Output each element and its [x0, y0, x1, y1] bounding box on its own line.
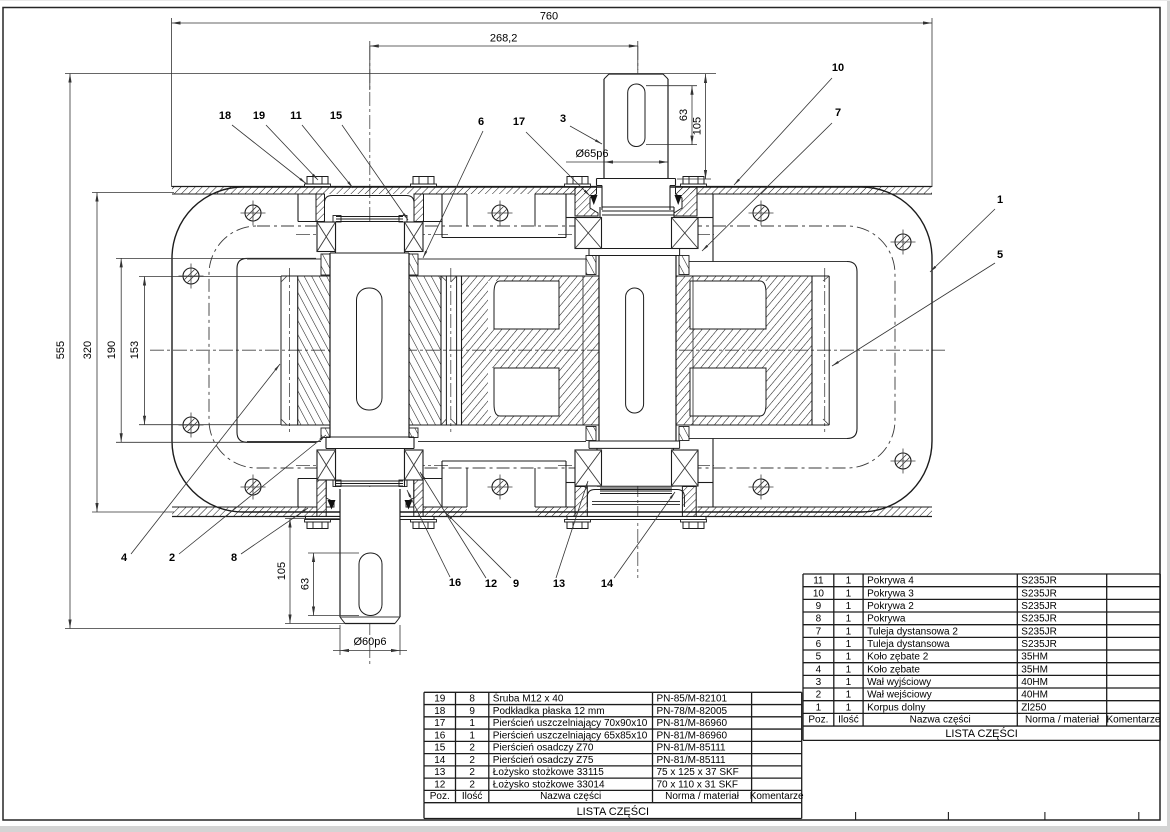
gear wheel (kolo zebate, part 4) hatched section: [462, 276, 813, 425]
pinion tip lines: [280, 276, 282, 425]
cover 2 flange: [306, 517, 341, 520]
callout 17: [513, 116, 590, 196]
svg-text:13: 13: [553, 578, 565, 590]
svg-text:Ø65p6: Ø65p6: [575, 148, 608, 160]
callout 2: [169, 435, 326, 564]
centerline left shaft: [369, 46, 371, 665]
svg-text:Zl250: Zl250: [1021, 702, 1046, 713]
svg-text:11: 11: [813, 576, 824, 587]
svg-text:S235JR: S235JR: [1021, 576, 1057, 587]
svg-text:10: 10: [832, 62, 844, 74]
svg-text:19: 19: [434, 694, 446, 705]
spacer sleeve (tuleja dystansowa, part 6) on output shaft: [321, 254, 330, 275]
svg-text:13: 13: [434, 767, 446, 778]
svg-text:7: 7: [816, 626, 822, 637]
svg-text:LISTA CZĘŚCI: LISTA CZĘŚCI: [945, 727, 1018, 740]
svg-text:1: 1: [846, 626, 852, 637]
callout 3: [560, 113, 602, 144]
parts list table 1: [424, 692, 804, 819]
svg-text:4: 4: [816, 664, 822, 675]
svg-text:1: 1: [846, 639, 852, 650]
svg-text:15: 15: [330, 110, 342, 122]
svg-text:1: 1: [469, 718, 475, 729]
input shaft protruding end: [603, 79, 605, 179]
dimension 153: [144, 277, 146, 425]
svg-text:Wał wyjściowy: Wał wyjściowy: [867, 677, 931, 688]
tapered roller bearing bottom-right outer: [672, 450, 699, 486]
housing cavity left end contour: [237, 258, 316, 442]
svg-text:19: 19: [253, 110, 265, 122]
svg-text:Łożysko stożkowe 33014: Łożysko stożkowe 33014: [493, 779, 605, 790]
callout 8: [231, 508, 308, 564]
svg-text:2: 2: [469, 755, 475, 766]
dimension 105 input shaft: [677, 178, 711, 180]
svg-text:6: 6: [816, 639, 822, 650]
gear wheel tip lines: [445, 276, 447, 425]
output shaft outlines: [329, 253, 331, 437]
cover 3 (pokrywa 3, part 10) top-right through cover: [575, 187, 598, 217]
svg-text:18: 18: [434, 706, 446, 717]
input shaft end keyway: [628, 84, 645, 147]
callout 9: [446, 513, 519, 590]
svg-text:6: 6: [478, 116, 484, 128]
tapered roller bearing 33115 top-right outer: [672, 218, 699, 249]
flange bolt hole 1: [241, 201, 266, 226]
svg-text:12: 12: [434, 779, 446, 790]
svg-text:760: 760: [540, 11, 558, 23]
housing cavity ledge mid bottom: [442, 460, 566, 462]
svg-text:1: 1: [846, 652, 852, 663]
svg-text:16: 16: [434, 730, 446, 741]
svg-text:Komentarze: Komentarze: [750, 791, 804, 802]
dimension 63 output shaft: [308, 552, 359, 554]
output shaft protruding end: [339, 489, 341, 617]
svg-text:Pokrywa 2: Pokrywa 2: [867, 601, 914, 612]
svg-text:18: 18: [219, 110, 231, 122]
svg-text:4: 4: [121, 552, 128, 564]
hex bolt M12 bottom x=577.5: [565, 520, 591, 529]
tapered roller bearing 33014 top-left (part 12): [317, 222, 336, 252]
retaining ring stack bottom-left: [336, 480, 403, 482]
flange bolt hole 10: [749, 475, 774, 500]
centerline top bearings axis: [296, 234, 448, 236]
callout 7: [702, 107, 841, 251]
svg-text:Ilość: Ilość: [462, 791, 483, 802]
svg-text:11: 11: [290, 110, 302, 122]
retaining ring Z70 stack top-left (part 15): [336, 216, 403, 218]
callout 13: [553, 481, 588, 590]
hex bolt M12 bottom x=423.5: [411, 520, 437, 529]
svg-text:Wał wejściowy: Wał wejściowy: [867, 690, 932, 701]
svg-text:320: 320: [82, 341, 94, 359]
housing cavity right end contour: [713, 262, 857, 439]
dimension 190: [120, 258, 122, 442]
svg-text:555: 555: [55, 341, 67, 359]
svg-text:3: 3: [816, 677, 822, 688]
svg-text:Pierścień uszczelniający 65x85: Pierścień uszczelniający 65x85x10: [493, 730, 648, 741]
hex bolt M12 bottom x=693.5: [681, 520, 707, 529]
svg-text:LISTA CZĘŚCI: LISTA CZĘŚCI: [577, 805, 650, 818]
svg-text:S235JR: S235JR: [1021, 601, 1057, 612]
housing cavity ledge mid top: [442, 237, 566, 239]
svg-text:35HM: 35HM: [1021, 664, 1048, 675]
svg-text:S235JR: S235JR: [1021, 639, 1057, 650]
svg-text:Koło zębate 2: Koło zębate 2: [867, 652, 929, 663]
output shaft keyway slot: [357, 288, 383, 410]
seal ring 70x90x10 output side (part 16): [328, 500, 336, 510]
input shaft keyway slot: [626, 288, 644, 413]
dimension 320: [96, 193, 98, 513]
flange bolt hole 5: [179, 413, 204, 438]
dimension diameter 65p6: [566, 161, 668, 163]
svg-text:1: 1: [846, 664, 852, 675]
svg-text:63: 63: [300, 578, 312, 590]
svg-text:7: 7: [835, 107, 841, 119]
svg-text:Podkładka płaska 12 mm: Podkładka płaska 12 mm: [493, 706, 605, 717]
hex bolt M12 top x=577.5: [565, 177, 591, 187]
svg-text:S235JR: S235JR: [1021, 626, 1057, 637]
svg-text:Tuleja dystansowa 2: Tuleja dystansowa 2: [867, 626, 958, 637]
frame tick marks: [855, 812, 857, 820]
svg-text:1: 1: [846, 588, 852, 599]
flange bolt hole 6: [891, 230, 916, 255]
gear wheel pitch line right: [824, 268, 826, 432]
callout 1: [930, 194, 1003, 272]
svg-text:1: 1: [846, 690, 852, 701]
svg-text:9: 9: [816, 601, 822, 612]
callout 5: [832, 249, 1003, 366]
housing outer contour: [172, 187, 932, 512]
retaining ring stack bottom-right: [600, 487, 672, 489]
svg-text:PN-85/M-82101: PN-85/M-82101: [657, 694, 728, 705]
svg-text:40HM: 40HM: [1021, 677, 1048, 688]
cover 4 (pokrywa 4, part 11) top-left blind cover: [316, 194, 325, 222]
svg-text:63: 63: [678, 109, 690, 121]
svg-text:Pierścień osadczy Z75: Pierścień osadczy Z75: [493, 755, 594, 766]
dimension 63 input shaft: [646, 85, 697, 87]
centerline right shaft: [637, 46, 639, 578]
svg-text:14: 14: [434, 755, 446, 766]
tapered roller bearing 33014 top-left outer: [405, 222, 424, 252]
tapered roller bearing bottom-right: [575, 450, 602, 486]
svg-text:1: 1: [469, 730, 475, 741]
svg-text:14: 14: [601, 578, 614, 590]
svg-text:S235JR: S235JR: [1021, 614, 1057, 625]
hex bolt M12 bottom x=317.5: [305, 520, 331, 529]
svg-text:1: 1: [846, 601, 852, 612]
svg-text:Pierścień osadczy Z70: Pierścień osadczy Z70: [493, 743, 594, 754]
svg-text:17: 17: [434, 718, 446, 729]
svg-text:PN-81/M-85111: PN-81/M-85111: [657, 743, 727, 754]
svg-text:1: 1: [846, 702, 852, 713]
svg-text:153: 153: [129, 341, 141, 359]
callout 6: [423, 116, 484, 258]
seal ring 65x85x10 input side (part 17): [590, 195, 598, 205]
svg-text:Pokrywa 4: Pokrywa 4: [867, 576, 914, 587]
bearing boss bottom right: [565, 461, 567, 507]
svg-text:9: 9: [513, 578, 519, 590]
svg-text:Śruba M12 x 40: Śruba M12 x 40: [493, 692, 564, 705]
callout 16: [407, 490, 461, 589]
svg-text:PN-81/M-85111: PN-81/M-85111: [657, 755, 727, 766]
spacer sleeve 2 (tuleja dystansowa 2, part 7) on input shaft: [586, 256, 596, 275]
tapered roller bearing 33115 top-right (part 13): [575, 218, 602, 249]
dimension 268,2: [370, 45, 638, 47]
svg-text:105: 105: [276, 562, 288, 580]
output shaft (wal wyjsciowy, part 3) body white: [330, 253, 409, 437]
gear wheel rim root lines: [461, 276, 463, 425]
svg-text:5: 5: [997, 249, 1003, 261]
input shaft bottom journal: [596, 448, 598, 486]
centerline main horizontal axis: [150, 349, 945, 351]
svg-text:1: 1: [846, 576, 852, 587]
callout 4: [121, 364, 280, 564]
svg-text:2: 2: [469, 743, 475, 754]
output shaft end keyway: [359, 553, 382, 616]
svg-text:Poz.: Poz.: [808, 715, 828, 726]
bearing boss bottom left: [297, 479, 299, 508]
svg-text:2: 2: [816, 690, 822, 701]
tapered roller bearing bottom-left: [317, 450, 336, 480]
bottom scrollbar strip: [0, 826, 1170, 832]
svg-text:Korpus dolny: Korpus dolny: [867, 702, 925, 713]
svg-text:35HM: 35HM: [1021, 652, 1048, 663]
svg-text:Pierścień uszczelniający 70x9: Pierścień uszczelniający 70x90x10: [493, 718, 648, 729]
hex bolt M12 top x=693.5: [681, 177, 707, 187]
svg-text:8: 8: [231, 552, 237, 564]
svg-text:PN-81/M-86960: PN-81/M-86960: [657, 730, 728, 741]
housing flange hidden line dashed rounded rect: [209, 226, 895, 468]
tapered roller bearing bottom-left outer: [405, 450, 424, 480]
svg-text:Komentarze: Komentarze: [1106, 715, 1160, 726]
svg-text:Ilość: Ilość: [838, 715, 859, 726]
svg-text:190: 190: [106, 341, 118, 359]
hex bolt M12 top x=317.5: [305, 177, 331, 187]
flange bolt hole 8: [241, 475, 266, 500]
bolt pocket top center: [466, 194, 468, 227]
right scrollbar strip: [1167, 0, 1170, 832]
svg-text:5: 5: [816, 652, 822, 663]
svg-text:Norma / materiał: Norma / materiał: [1025, 715, 1100, 726]
svg-text:15: 15: [434, 743, 446, 754]
pinion (kolo zebate 2, part 5) hatched section: [298, 276, 441, 425]
svg-text:12: 12: [485, 578, 497, 590]
svg-text:2: 2: [469, 767, 475, 778]
svg-text:3: 3: [560, 113, 566, 125]
svg-text:9: 9: [469, 706, 475, 717]
dimension 105 output shaft: [285, 518, 340, 520]
gear face bottom edges: [281, 424, 330, 426]
bearing boss top right: [565, 194, 567, 238]
svg-text:PN-78/M-82005: PN-78/M-82005: [657, 706, 728, 717]
cover 2 (pokrywa 2, part 9) bottom-left through cover with seal: [317, 480, 326, 520]
callout 18: [219, 110, 306, 184]
svg-text:Pokrywa: Pokrywa: [867, 614, 906, 625]
flange bolt hole 4: [179, 264, 204, 289]
svg-text:8: 8: [469, 694, 475, 705]
flange bolt hole 9: [488, 475, 513, 500]
input shaft top journal: [599, 207, 601, 249]
top window edge: [0, 0, 1170, 1]
retaining ring Z75 stack top-right (part 14): [602, 206, 674, 208]
svg-text:105: 105: [692, 117, 704, 135]
parts list table 2: [803, 574, 1161, 740]
svg-text:268,2: 268,2: [490, 33, 518, 45]
centerline bottom bearings axis: [296, 465, 448, 467]
svg-text:10: 10: [813, 588, 825, 599]
svg-text:75 x 125 x 37 SKF: 75 x 125 x 37 SKF: [657, 767, 739, 778]
callout 10: [734, 62, 844, 185]
mesh pitch line: [450, 268, 452, 432]
input shaft outlines: [598, 256, 600, 442]
svg-text:1: 1: [846, 614, 852, 625]
svg-text:17: 17: [513, 116, 525, 128]
callout 12: [420, 472, 497, 590]
svg-text:2: 2: [169, 552, 175, 564]
svg-text:PN-81/M-86960: PN-81/M-86960: [657, 718, 728, 729]
svg-text:Tuleja dystansowa: Tuleja dystansowa: [867, 639, 950, 650]
svg-text:Łożysko stożkowe 33115: Łożysko stożkowe 33115: [493, 767, 604, 778]
input shaft (wal wejsciowy, part 2) body white: [599, 256, 676, 442]
svg-text:40HM: 40HM: [1021, 690, 1048, 701]
housing top flange strip hatched: [172, 187, 932, 195]
callout 11: [290, 110, 353, 188]
housing inner ledge line lower: [247, 441, 321, 443]
svg-text:Nazwa części: Nazwa części: [540, 791, 601, 802]
svg-text:Poz.: Poz.: [430, 791, 450, 802]
svg-text:Norma / materiał: Norma / materiał: [665, 791, 740, 802]
gear face top edges: [281, 275, 330, 277]
svg-text:Nazwa części: Nazwa części: [910, 715, 971, 726]
svg-text:S235JR: S235JR: [1021, 588, 1057, 599]
gear chamfer marks: [281, 276, 287, 282]
pinion pitch line left: [288, 268, 290, 432]
callout 19: [253, 110, 318, 180]
callout 15: [330, 110, 408, 220]
svg-text:1: 1: [997, 194, 1003, 206]
gear wheel hub boundary lines: [582, 276, 584, 425]
svg-text:1: 1: [846, 677, 852, 688]
housing bottom flange strip hatched: [172, 507, 932, 517]
cover (pokrywa, part 8) bottom-right blind cover: [575, 487, 587, 520]
svg-text:8: 8: [816, 614, 822, 625]
flange bolt hole 7: [891, 449, 916, 474]
svg-text:2: 2: [469, 779, 475, 790]
dimension diameter 60p6: [339, 625, 341, 655]
dimension 760: [171, 18, 173, 187]
flange bolt hole 2: [488, 201, 513, 226]
flange bolt hole 3: [749, 201, 774, 226]
hex bolt M12 top x=423.5: [411, 177, 437, 187]
bolt pocket bottom center: [466, 468, 468, 507]
cover bottom-right flange: [567, 517, 706, 520]
svg-text:70 x 110 x 31 SKF: 70 x 110 x 31 SKF: [657, 779, 739, 790]
gear wheel lightening holes outlines: [494, 281, 559, 329]
svg-text:Koło zębate: Koło zębate: [867, 664, 920, 675]
svg-text:Pokrywa 3: Pokrywa 3: [867, 588, 914, 599]
svg-text:16: 16: [449, 577, 461, 589]
housing inner ledge line upper: [247, 258, 321, 260]
callout 14: [601, 492, 675, 590]
bearing boss top left: [297, 194, 299, 222]
svg-text:1: 1: [816, 702, 822, 713]
svg-text:Ø60p6: Ø60p6: [353, 636, 386, 648]
dimension 555: [69, 74, 71, 629]
pinion root lines: [297, 276, 299, 425]
